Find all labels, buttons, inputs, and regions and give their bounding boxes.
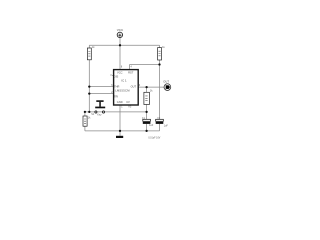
svg-text:THR: THR xyxy=(114,85,119,89)
svg-text:GND: GND xyxy=(117,100,123,104)
svg-text:VCC: VCC xyxy=(117,70,123,74)
svg-text:RST: RST xyxy=(128,70,134,74)
svg-text:VCC: VCC xyxy=(117,28,124,32)
svg-text:1uF: 1uF xyxy=(164,124,169,127)
svg-text:TRI: TRI xyxy=(114,94,118,98)
svg-text:CV: CV xyxy=(126,100,130,104)
svg-text:1uF: 1uF xyxy=(149,124,154,127)
svg-text:OUT: OUT xyxy=(163,79,169,83)
svg-text:DIS: DIS xyxy=(114,75,119,79)
svg-text:IC 1: IC 1 xyxy=(121,79,127,83)
svg-text:0.01uF 16V: 0.01uF 16V xyxy=(148,138,160,140)
svg-text:OUT: OUT xyxy=(131,85,137,89)
svg-text:LM555CM: LM555CM xyxy=(115,89,130,93)
